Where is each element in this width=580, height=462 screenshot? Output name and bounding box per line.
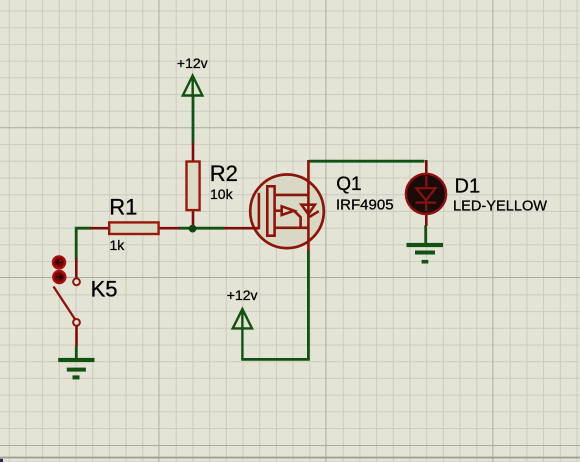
wire: R1 right to junction to gate (green parts) (179, 227, 225, 230)
transistor Q1 body circle (250, 175, 324, 249)
svg-text:LED-YELLOW: LED-YELLOW (453, 199, 547, 215)
power +12v bottom (arrow symbol) (233, 309, 252, 359)
ground (below switch) (58, 358, 94, 380)
wire: MOSFET bottom to +12v arrow (down, left, up) (241, 251, 308, 360)
svg-text:D1: D1 (455, 176, 481, 198)
transistor Q1 internal symbol (259, 186, 319, 235)
bottom-left corner mark (0, 459, 3, 462)
switch K5 bottom contact circle (73, 319, 80, 326)
svg-text:IRF4905: IRF4905 (336, 197, 394, 214)
switch K5 toggle button down (53, 271, 65, 283)
transistor Q1 drain/source vertical conductor (red) (307, 160, 310, 252)
switch K5 bottom pin (red) (75, 326, 78, 346)
wire: R1 left to switch (horizontal then vertical) (76, 228, 91, 259)
power +12v top (arrow symbol) (183, 76, 203, 96)
ground (below LED) (407, 243, 444, 264)
wire: R2 top to +12v arrow (192, 96, 195, 144)
svg-text:Q1: Q1 (336, 174, 361, 195)
svg-text:R1: R1 (109, 194, 137, 219)
svg-text:+12v: +12v (227, 287, 258, 303)
svg-text:10k: 10k (210, 186, 234, 202)
switch K5 pin (red) from wire (75, 259, 78, 278)
LED D1 bottom pin (red) (425, 212, 428, 226)
svg-text:1k: 1k (110, 237, 126, 253)
switch K5 toggle button up (53, 256, 65, 268)
LED D1 body (406, 174, 446, 214)
svg-text:+12v: +12v (177, 55, 208, 71)
resistor R2 pins (192, 143, 195, 229)
transistor Q1 gate pin (red) (224, 227, 259, 230)
wire: switch to ground (green part) (75, 346, 78, 358)
wire: MOSFET top to LED (horizontal) (309, 160, 425, 163)
switch K5 top contact circle (73, 278, 80, 285)
svg-text:K5: K5 (91, 276, 118, 301)
node junction (R1/R2/gate) (189, 225, 197, 233)
resistor R1 pins (91, 227, 180, 230)
wire: LED to ground (green part) (424, 225, 427, 243)
resistor R1 body (109, 222, 158, 234)
resistor R2 body (187, 162, 200, 211)
svg-text:R2: R2 (210, 161, 238, 186)
switch K5 lever (54, 287, 76, 321)
LED D1 top pin (red) (425, 160, 428, 175)
bottom window edge line (0, 457, 580, 459)
